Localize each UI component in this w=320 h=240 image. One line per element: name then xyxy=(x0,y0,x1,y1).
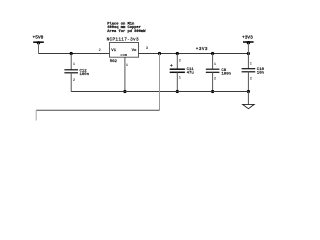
svg-text:47u: 47u xyxy=(187,72,195,76)
svg-text:1: 1 xyxy=(214,63,216,67)
wire +3V3 lower run xyxy=(36,109,159,111)
svg-text:2: 2 xyxy=(214,77,216,81)
node junction com/gnd xyxy=(123,90,126,93)
svg-text:+5V0: +5V0 xyxy=(33,35,44,41)
node junction C10/gnd xyxy=(247,90,250,93)
svg-text:Vo: Vo xyxy=(132,49,137,53)
svg-text:NCP1117-3v3: NCP1117-3v3 xyxy=(107,37,139,42)
node junction C11/gnd xyxy=(176,90,179,93)
svg-text:2: 2 xyxy=(73,79,75,83)
svg-text:1: 1 xyxy=(73,63,75,67)
svg-text:Vi: Vi xyxy=(111,48,116,53)
ground xyxy=(243,92,255,109)
node junction output branch xyxy=(158,52,161,55)
power +5V0 xyxy=(33,35,44,45)
svg-text:10n: 10n xyxy=(257,72,265,76)
capacitor C11 polarized xyxy=(170,54,195,92)
svg-text:2: 2 xyxy=(250,77,252,81)
node junction C12/input xyxy=(70,52,73,55)
svg-text:1: 1 xyxy=(126,64,128,68)
svg-text:1: 1 xyxy=(179,77,181,81)
svg-text:+3V3: +3V3 xyxy=(196,47,208,52)
node junction C8/out xyxy=(211,52,214,55)
node junction C10/out xyxy=(247,52,250,55)
wire +3V3 left tail xyxy=(35,110,37,120)
svg-text:100n: 100n xyxy=(80,73,90,77)
power +3V3 xyxy=(242,35,254,45)
wire +3V3 drop xyxy=(247,43,249,54)
svg-text:+3V3: +3V3 xyxy=(242,35,253,41)
node junction C11/out xyxy=(176,52,179,55)
svg-text:2: 2 xyxy=(99,49,101,53)
svg-text:2: 2 xyxy=(179,59,181,63)
svg-text:100n: 100n xyxy=(221,72,231,76)
svg-text:3: 3 xyxy=(146,47,148,51)
wire com pin drop xyxy=(124,57,126,91)
note text block xyxy=(107,21,146,34)
op-amp regulator U RG2 NCP1117-3v3 xyxy=(107,37,139,64)
svg-text:Area for pd 800mW: Area for pd 800mW xyxy=(107,29,146,34)
wire input rail xyxy=(39,53,110,55)
wire output rail xyxy=(139,53,249,55)
capacitor C8 xyxy=(206,54,232,92)
wire +3V3 vertical feed xyxy=(159,54,161,111)
capacitor C10 xyxy=(242,54,265,92)
capacitor C12 xyxy=(64,54,89,92)
svg-text:1: 1 xyxy=(250,63,252,67)
svg-text:com: com xyxy=(120,54,127,58)
node junction C8/gnd xyxy=(211,90,214,93)
wire +5V0 drop xyxy=(38,43,40,54)
svg-text:RG2: RG2 xyxy=(110,60,118,64)
wire ground rail xyxy=(71,91,248,93)
